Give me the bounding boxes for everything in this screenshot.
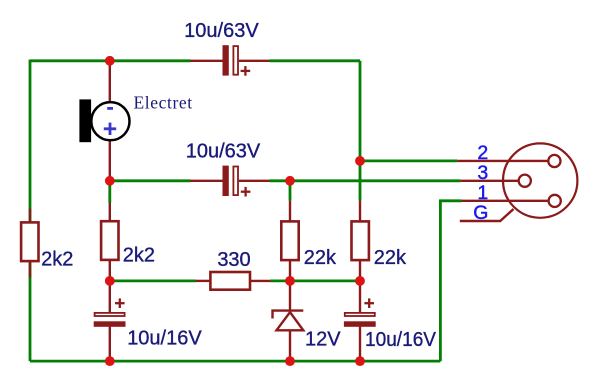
resistor R1 2k2 left: [21, 222, 38, 261]
label pin 1: [477, 182, 488, 204]
zener D1 12V: [273, 311, 304, 331]
junction dot top: [105, 56, 115, 66]
svg-text:G: G: [473, 202, 488, 224]
wire colC 22k leads: [359, 201, 361, 281]
XLR connector body: [503, 143, 577, 217]
wire colA mic leads: [109, 61, 111, 181]
label R1 value 2k2: [41, 248, 73, 270]
label R3 value 330: [217, 249, 250, 271]
junction dot row280 colA: [105, 276, 115, 286]
wire G tail: [460, 209, 514, 221]
label C4 value 10u/16V: [365, 329, 437, 351]
junction dot bottom colA: [105, 356, 115, 366]
resistor R3 330: [210, 272, 250, 290]
resistor R4 22k: [281, 221, 298, 260]
label Electret: [134, 92, 193, 112]
svg-text:10u/63V: 10u/63V: [184, 20, 259, 42]
wire pin2 lead: [457, 160, 548, 162]
label C3 value 10u/16V: [127, 327, 202, 349]
svg-text:22k: 22k: [374, 247, 407, 269]
capacitor C1 10u/63V: [223, 45, 251, 75]
label C2 value 10u/63V: [186, 140, 261, 162]
wire pin2 row: [360, 159, 457, 162]
svg-text:Electret: Electret: [134, 92, 193, 112]
XLR pin 2: [548, 155, 560, 167]
junction dot row180 colB: [285, 176, 295, 186]
XLR pin 1: [549, 195, 561, 207]
wire row 280: [110, 279, 196, 282]
label R2 value 2k2: [123, 245, 155, 267]
svg-text:12V: 12V: [305, 329, 341, 351]
junction dot row280 colC: [355, 276, 365, 286]
wire pin3 lead: [461, 180, 519, 182]
wire cap C2 leads: [190, 180, 269, 182]
label C1 value 10u/63V: [184, 20, 259, 42]
wire mid row 180: [110, 179, 191, 182]
label pin G: [473, 202, 488, 224]
svg-text:22k: 22k: [304, 247, 337, 269]
svg-text:330: 330: [217, 249, 250, 271]
wire top rail: [30, 59, 360, 62]
resistor R5 22k: [352, 221, 369, 260]
wire right vertical to pin1: [440, 201, 461, 361]
wire colC vertical: [359, 61, 362, 201]
junction dot mic-bottom: [105, 176, 115, 186]
svg-text:2k2: 2k2: [123, 245, 155, 267]
junction dot bottom colB: [285, 356, 295, 366]
wire colA cap leads: [109, 281, 111, 361]
resistor R2 2k2 mid: [101, 221, 118, 260]
svg-text:2: 2: [477, 142, 488, 164]
capacitor C4 10u/16V: [344, 298, 376, 326]
label D1 value 12V: [305, 329, 341, 351]
svg-text:1: 1: [477, 182, 488, 204]
svg-text:10u/16V: 10u/16V: [365, 329, 437, 351]
label R5 value 22k: [374, 247, 407, 269]
wire colL resistor gaps: [29, 209, 31, 278]
wire colB zener leads: [289, 281, 291, 361]
svg-text:3: 3: [477, 162, 488, 184]
junction dot pin2 branch: [355, 156, 365, 166]
capacitor C2 10u/63V: [223, 166, 251, 197]
electret microphone MK1: [79, 99, 129, 142]
junction dot row280 colB: [285, 276, 295, 286]
wire left rail: [29, 60, 32, 362]
XLR pin 3: [519, 175, 531, 187]
wire 330 leads: [196, 280, 271, 282]
wire colC cap leads: [359, 281, 361, 361]
label pin 2: [477, 142, 488, 164]
wire bottom rail: [30, 360, 440, 363]
wire colB 22k leads: [289, 181, 292, 281]
svg-text:2k2: 2k2: [41, 248, 73, 270]
wire cap C1 leads: [190, 60, 269, 62]
junction dot bottom colC: [355, 356, 365, 366]
wire pin1 lead: [462, 200, 549, 202]
wire colA 2k2 leads: [108, 181, 111, 281]
capacitor C3 10u/16V: [94, 298, 126, 326]
svg-text:10u/63V: 10u/63V: [186, 140, 261, 162]
wire row 280 right: [270, 279, 360, 282]
label R4 value 22k: [304, 247, 337, 269]
label pin 3: [477, 162, 488, 184]
svg-text:10u/16V: 10u/16V: [127, 327, 202, 349]
wire row 180 right to pin3: [270, 179, 461, 182]
